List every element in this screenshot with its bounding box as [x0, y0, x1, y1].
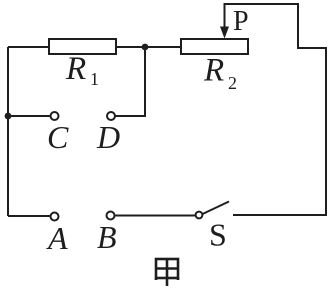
terminal D: [107, 112, 115, 120]
svg-text:B: B: [97, 219, 117, 255]
wire top horizontal to right: [224, 3, 299, 5]
resistor R2: [181, 39, 248, 54]
wire top-left horizontal: [8, 46, 49, 48]
svg-text:C: C: [47, 119, 69, 155]
terminal B: [107, 212, 115, 220]
switch S blade: [203, 202, 230, 215]
node junction after R1: [142, 44, 149, 51]
wire left vertical: [7, 47, 9, 216]
switch pivot circle: [196, 212, 203, 219]
wiper arrowhead P: [220, 27, 229, 39]
wire bottom-left to A: [8, 215, 50, 217]
terminal C: [51, 112, 59, 120]
svg-text:A: A: [46, 220, 68, 256]
label 甲 (drawn): [156, 259, 178, 286]
resistor R1: [49, 39, 116, 54]
wire right vertical: [325, 47, 327, 216]
terminal A: [51, 213, 59, 221]
wire wiper stem: [224, 4, 226, 30]
wire B to switch: [115, 215, 196, 217]
svg-text:2: 2: [228, 73, 237, 93]
wire R1 right to R2 left: [116, 46, 181, 48]
wire D to node: [116, 47, 146, 116]
svg-text:D: D: [96, 119, 120, 155]
wire junction to C: [8, 115, 50, 117]
svg-text:1: 1: [90, 69, 99, 89]
svg-text:R: R: [203, 53, 224, 89]
wire right upper vertical: [297, 3, 299, 48]
svg-text:P: P: [233, 6, 249, 37]
svg-text:R: R: [65, 51, 86, 87]
wire step horizontal: [297, 47, 326, 49]
node junction left: [5, 113, 12, 120]
wire switch to right: [233, 214, 326, 216]
svg-text:S: S: [209, 217, 227, 253]
